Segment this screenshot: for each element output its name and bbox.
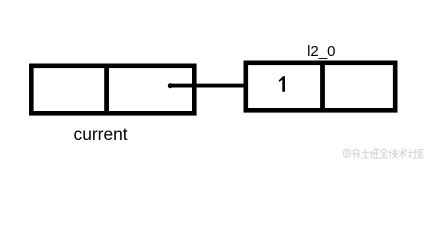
技 bbox=[389, 149, 398, 159]
svg-text:l2_0: l2_0 bbox=[307, 43, 335, 60]
linked-list diagram bbox=[0, 0, 431, 166]
divider of l2_0 node bbox=[320, 61, 325, 113]
divider of current node bbox=[104, 64, 109, 116]
node box "l2_0" (right two-cell rectangle) bbox=[246, 63, 395, 111]
svg-text:current: current bbox=[74, 124, 128, 144]
pointer wire from current.next to node l2_0 bbox=[171, 84, 246, 88]
wire start dot bbox=[168, 83, 173, 88]
社 bbox=[408, 149, 417, 158]
watermark @稀土掘金技术社区 (drawn as light-gray strokes) bbox=[343, 148, 423, 158]
node box "current" (left two-cell rectangle) bbox=[31, 66, 194, 114]
@ bbox=[343, 149, 351, 157]
掘 bbox=[370, 149, 379, 158]
稀 bbox=[353, 149, 360, 158]
value 1 bbox=[279, 76, 286, 92]
术 bbox=[399, 148, 407, 158]
金 bbox=[380, 149, 388, 158]
土 bbox=[361, 149, 369, 158]
区 bbox=[419, 150, 423, 158]
